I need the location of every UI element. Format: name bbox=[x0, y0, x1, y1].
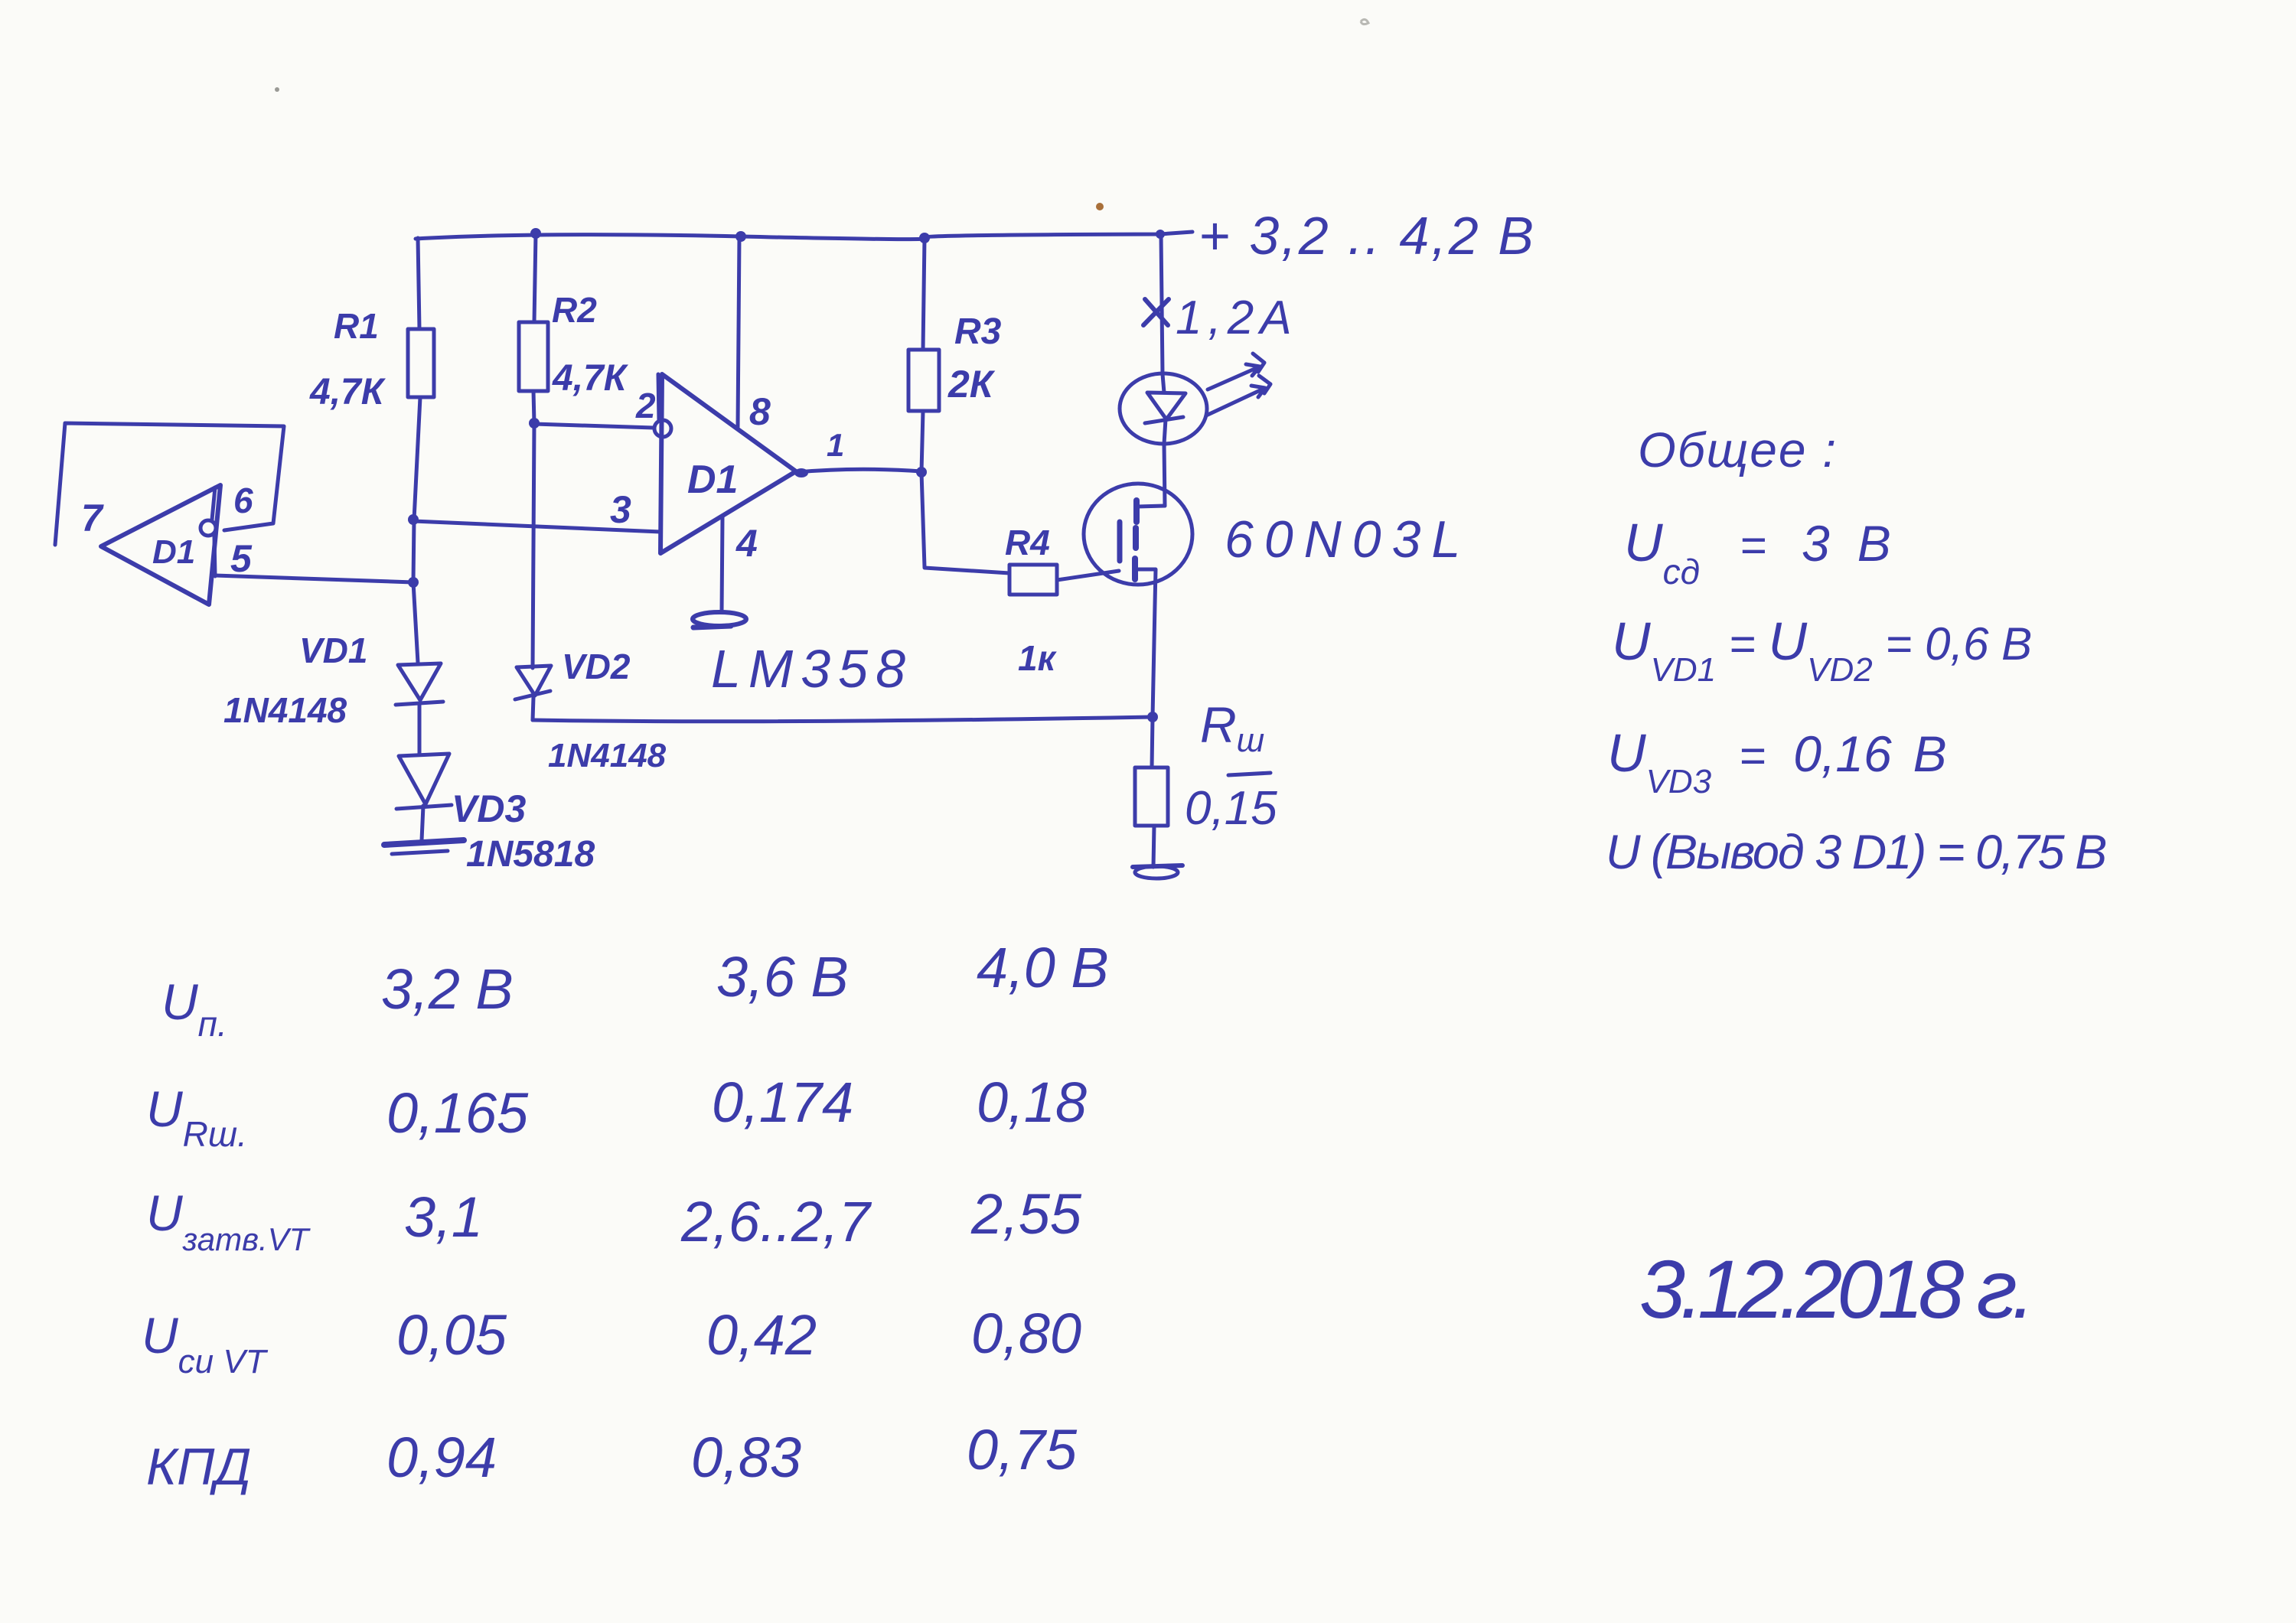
svg-text:U (Вывод 3 D1) = 0,75 В: U (Вывод 3 D1) = 0,75 В bbox=[1606, 826, 2105, 879]
svg-text:VD2: VD2 bbox=[562, 647, 631, 686]
svg-text:3,1: 3,1 bbox=[404, 1185, 483, 1249]
svg-text:1,2А: 1,2А bbox=[1176, 292, 1298, 344]
svg-text:1N5818: 1N5818 bbox=[466, 834, 595, 875]
svg-text:3,6 В: 3,6 В bbox=[716, 945, 849, 1009]
svg-text:0,18: 0,18 bbox=[977, 1071, 1087, 1134]
svg-text:LM358: LM358 bbox=[711, 639, 913, 699]
svg-text:VD1: VD1 bbox=[299, 631, 367, 670]
svg-text:R4: R4 bbox=[1005, 523, 1050, 562]
svg-text:3.12.2018 г.: 3.12.2018 г. bbox=[1639, 1243, 2030, 1335]
svg-text:0,94: 0,94 bbox=[386, 1426, 497, 1489]
svg-text:+ 3,2 .. 4,2 В: + 3,2 .. 4,2 В bbox=[1199, 206, 1536, 266]
svg-text:2,55: 2,55 bbox=[970, 1182, 1082, 1246]
svg-text:60N03L: 60N03L bbox=[1225, 510, 1471, 569]
svg-text:R2: R2 bbox=[552, 290, 597, 330]
svg-text:0,75: 0,75 bbox=[967, 1418, 1078, 1481]
svg-text:5: 5 bbox=[230, 537, 253, 580]
svg-text:1к: 1к bbox=[1018, 638, 1058, 678]
svg-text:7: 7 bbox=[81, 497, 104, 539]
svg-text:1: 1 bbox=[827, 427, 844, 463]
svg-text:0,165: 0,165 bbox=[386, 1081, 529, 1145]
svg-text:R3: R3 bbox=[954, 311, 1002, 352]
svg-text:6: 6 bbox=[233, 481, 253, 520]
svg-text:4,0 В: 4,0 В bbox=[977, 936, 1109, 999]
svg-text:2К: 2К bbox=[947, 363, 996, 406]
svg-text:D1: D1 bbox=[152, 533, 195, 571]
svg-text:0,80: 0,80 bbox=[971, 1302, 1081, 1365]
svg-text:3,2 В: 3,2 В bbox=[381, 957, 514, 1021]
svg-text:0,05: 0,05 bbox=[396, 1303, 507, 1367]
svg-text:4: 4 bbox=[735, 522, 758, 565]
svg-text:D1: D1 bbox=[687, 458, 738, 502]
svg-text:КПД: КПД bbox=[146, 1438, 251, 1496]
svg-text:2,6..2,7: 2,6..2,7 bbox=[680, 1190, 872, 1253]
svg-text:3: 3 bbox=[610, 488, 631, 531]
svg-text:0,174: 0,174 bbox=[712, 1071, 853, 1134]
svg-text:2: 2 bbox=[635, 386, 656, 425]
svg-text:0,42: 0,42 bbox=[706, 1303, 817, 1367]
svg-text:Общее :: Общее : bbox=[1638, 422, 1838, 477]
svg-text:8: 8 bbox=[749, 390, 771, 433]
svg-text:R1: R1 bbox=[334, 306, 379, 346]
svg-text:4,7К: 4,7К bbox=[309, 372, 386, 412]
svg-text:0,83: 0,83 bbox=[691, 1426, 801, 1489]
svg-text:0,15: 0,15 bbox=[1185, 782, 1277, 835]
svg-text:4,7К: 4,7К bbox=[552, 358, 629, 399]
svg-text:1N4148: 1N4148 bbox=[548, 737, 667, 774]
svg-text:VD3: VD3 bbox=[452, 787, 526, 830]
svg-text:1N4148: 1N4148 bbox=[223, 690, 347, 730]
